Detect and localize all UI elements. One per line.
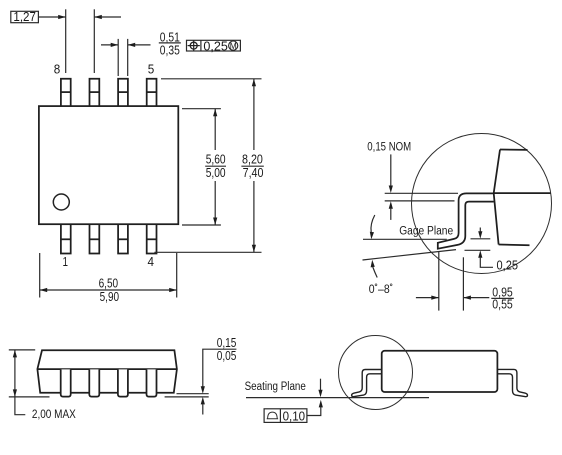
dimension 0,51/0,35 lead width	[159, 30, 181, 57]
end view left lead	[352, 370, 382, 397]
dimension 1,27 leader and arrows	[38, 15, 121, 19]
svg-text:0,15 NOM: 0,15 NOM	[367, 141, 411, 153]
pin number 1	[63, 255, 69, 269]
dimension 0,15/0,05 standoff	[201, 336, 237, 414]
dimension 2,00 MAX	[9, 350, 76, 421]
extension line pin7 centerline	[93, 9, 95, 73]
side view lead 4	[147, 369, 157, 396]
svg-text:0˚–8˚: 0˚–8˚	[369, 284, 394, 296]
extension line bottom lead tips (8,20 bottom)	[154, 251, 261, 253]
detail circle	[412, 134, 552, 274]
svg-text:8,20: 8,20	[242, 152, 263, 166]
svg-text:0,10: 0,10	[283, 409, 306, 423]
angle dimension arc and arrows	[370, 215, 377, 278]
pin 1 index circle	[53, 194, 69, 210]
lead thickness extension lines	[385, 193, 458, 201]
svg-text:0,51: 0,51	[160, 30, 180, 44]
seating slope line 0-8 degrees	[363, 250, 457, 260]
extension line lead3 left edge	[117, 39, 119, 76]
package body top view	[39, 106, 178, 224]
svg-text:1: 1	[63, 255, 69, 269]
feature control frame flatness 0,10	[264, 409, 307, 424]
end view detail circle	[339, 336, 413, 410]
side view lead 1	[61, 369, 71, 396]
svg-text:Seating Plane: Seating Plane	[245, 381, 306, 393]
pin 5 lead	[147, 79, 157, 106]
detail body end face	[494, 150, 551, 246]
gage plane line	[363, 238, 447, 240]
seating plane line	[246, 397, 429, 399]
dimension 1,27 basic box	[11, 10, 39, 24]
svg-text:0,25: 0,25	[497, 259, 519, 273]
dimension line 6,50/5,90 horizontal	[40, 288, 177, 292]
svg-text:0,25: 0,25	[203, 39, 228, 53]
extension line top lead tips (8,20 top)	[161, 78, 262, 80]
dimension 0,25 lines	[465, 228, 519, 273]
side view lead 2	[89, 369, 99, 396]
svg-text:2,00 MAX: 2,00 MAX	[32, 409, 76, 421]
angle text 0-8 deg	[369, 284, 394, 296]
dimension text 8,20/7,40	[241, 152, 263, 179]
svg-text:5,90: 5,90	[100, 290, 120, 304]
dimension 0,95/0,55 foot length	[416, 252, 514, 311]
feature control frame position 0,25 M	[187, 39, 241, 53]
pin 7 lead	[90, 79, 100, 106]
svg-text:7,40: 7,40	[243, 166, 264, 180]
dimension 0,51 arrows	[101, 43, 151, 47]
svg-text:5,60: 5,60	[206, 152, 226, 166]
package body side view	[37, 350, 177, 393]
end view right lead	[497, 369, 527, 396]
extension line lead3 right edge	[127, 39, 129, 76]
dimension text 5,60/5,00	[205, 152, 226, 179]
pin number 4	[148, 255, 155, 269]
svg-text:0,55: 0,55	[492, 297, 513, 311]
dimension text 6,50/5,90	[99, 277, 120, 304]
detail lead outline	[438, 193, 494, 248]
pin number 8	[54, 63, 61, 77]
svg-text:M: M	[230, 41, 237, 51]
extension line body bottom-left (6,50)	[39, 253, 41, 298]
extension line body top (5,60 top)	[182, 108, 221, 110]
seating plane line left segment	[9, 396, 50, 398]
svg-text:0,05: 0,05	[217, 349, 237, 363]
seating plane line right segment	[165, 396, 209, 398]
svg-text:0,35: 0,35	[160, 44, 180, 58]
dimension 0,15 NOM	[367, 141, 411, 220]
svg-text:5,00: 5,00	[206, 166, 226, 180]
dimension line 5,60/5,00 vertical	[213, 109, 217, 225]
extension line body bottom (5,60 bottom)	[182, 224, 221, 226]
dimension line 8,20/7,40 vertical	[252, 79, 256, 253]
svg-text:6,50: 6,50	[99, 277, 119, 291]
svg-text:1,27: 1,27	[13, 10, 36, 24]
extension line pin8 centerline	[65, 9, 67, 73]
pin 4 lead	[147, 224, 157, 253]
extension line body bottom-right (6,50)	[176, 253, 178, 298]
side view lead 3	[118, 369, 128, 396]
pin 2 lead	[90, 224, 100, 253]
svg-text:Gage Plane: Gage Plane	[399, 226, 453, 238]
seating plane arrows	[307, 379, 323, 416]
pin 6 lead	[118, 79, 128, 106]
end view package body	[382, 351, 498, 392]
gage plane label	[399, 226, 453, 238]
pin 8 lead (top row leftmost)	[61, 79, 71, 106]
svg-text:5: 5	[148, 63, 155, 77]
pin 1 lead (bottom row leftmost)	[61, 224, 71, 253]
body bottom extension right	[177, 393, 209, 395]
seating plane label	[245, 381, 306, 393]
svg-text:4: 4	[148, 255, 155, 269]
pin number 5	[148, 63, 155, 77]
pin 3 lead	[118, 224, 128, 253]
svg-text:8: 8	[54, 63, 61, 77]
